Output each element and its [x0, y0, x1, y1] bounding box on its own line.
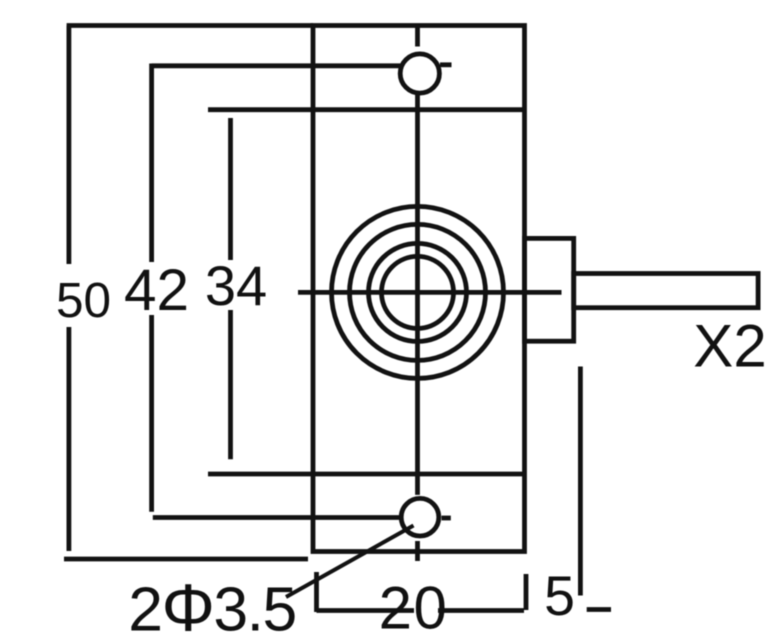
dimension 34 vertical extension upper segment	[228, 118, 233, 260]
dimension 42 top right tick	[440, 62, 452, 67]
dimension 50 vertical extension lower segment	[67, 327, 72, 551]
svg-text:34: 34	[205, 254, 267, 317]
top mounting hole	[400, 54, 439, 93]
dimension 42 bottom line	[153, 515, 401, 520]
dimension 42 vertical extension upper segment	[149, 64, 154, 263]
leader line to hole	[286, 526, 414, 598]
center line vertical middle segment	[415, 93, 420, 495]
dimension 50 top line	[67, 23, 313, 28]
sensor face circle outer	[332, 206, 504, 378]
body upper edge line (34 section top)	[208, 107, 525, 112]
center line vertical bottom segment	[415, 541, 420, 561]
sensor face circle second	[350, 224, 486, 360]
dimension 5 right line	[587, 607, 611, 612]
svg-text:20: 20	[379, 575, 449, 642]
bottom mounting hole	[401, 498, 439, 536]
connector box	[525, 238, 574, 341]
cable X2	[574, 274, 758, 308]
dimension 50 vertical extension upper segment	[67, 26, 72, 265]
sensor face circle inner	[382, 256, 454, 328]
svg-text:5: 5	[544, 565, 575, 627]
svg-text:2Φ3.5: 2Φ3.5	[128, 571, 296, 643]
svg-text:42: 42	[124, 258, 189, 323]
dimension 50 bottom line	[64, 557, 308, 562]
svg-text:X2: X2	[693, 313, 766, 380]
dimension 20 line left segment	[317, 608, 415, 613]
body lower edge line (34 section bottom)	[208, 472, 525, 477]
dimension 34 vertical extension lower segment	[228, 310, 233, 459]
svg-text:50: 50	[56, 273, 111, 328]
dimension 42 vertical extension lower segment	[149, 315, 154, 512]
body rectangle outline	[313, 26, 525, 552]
center line horizontal	[298, 290, 562, 295]
dimension 42 top line	[152, 63, 401, 68]
center line vertical top segment	[415, 26, 420, 47]
dimension 42 bottom right tick	[442, 516, 451, 521]
dimension 5 extension line	[578, 367, 583, 596]
dimension 20 line right segment	[438, 608, 524, 613]
sensor face circle third	[369, 243, 467, 341]
dimension 20 right tick	[524, 574, 529, 610]
dimension 20 left tick	[314, 572, 319, 612]
